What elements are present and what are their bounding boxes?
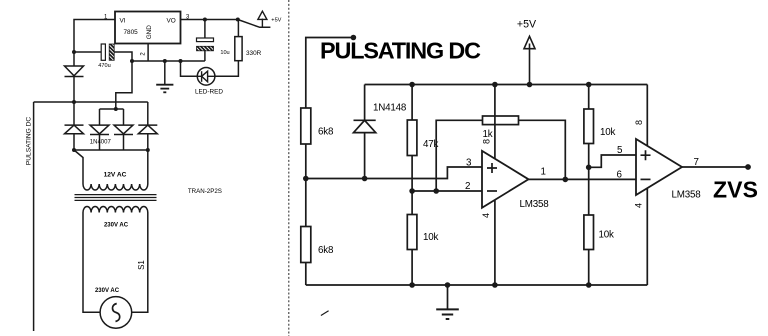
- junction at 330R branch: [236, 18, 240, 22]
- junction feedback on pin2 net: [433, 188, 439, 194]
- terminal dot ZVS output: [745, 164, 751, 170]
- junction U1 pin4 on bottom rail: [492, 282, 498, 288]
- svg-text:6k8: 6k8: [318, 127, 334, 138]
- wire: U1 pin8 to +5V rail: [494, 85, 496, 160]
- regulator 7805 body: [115, 12, 181, 44]
- wire: 470u right plate to gnd net corner: [114, 52, 132, 61]
- power +5V symbol (right): [524, 36, 535, 84]
- wire: U1 pin4 to bottom rail: [494, 200, 496, 285]
- resistor 10k (lower right) body: [584, 215, 594, 250]
- svg-text:4: 4: [633, 203, 643, 208]
- svg-text:+5V: +5V: [271, 17, 281, 23]
- wire: +5V top rail: [365, 84, 648, 86]
- op-amp U1 LM358 triangle: [482, 151, 529, 208]
- wire: pin2 net: [412, 190, 482, 192]
- wire: U2 pin4 to bottom rail: [646, 188, 648, 285]
- transformer TRAN-2P2S secondary coil 12V AC: [83, 184, 148, 190]
- wire: mid rail to 6k8 lower: [305, 179, 307, 227]
- svg-text:8: 8: [634, 120, 644, 125]
- junction 10k lower on bottom rail: [586, 282, 592, 288]
- junction pin2 tap: [409, 188, 415, 194]
- svg-text:3: 3: [466, 158, 472, 169]
- wire: 10k bottom to bottom rail: [411, 250, 413, 286]
- svg-text:330R: 330R: [246, 50, 262, 57]
- svg-text:LM358: LM358: [520, 199, 550, 210]
- svg-text:6k8: 6k8: [318, 245, 334, 256]
- LED-RED circle: [197, 68, 215, 86]
- junction +5V on rail: [527, 82, 533, 88]
- wire: 330R top: [237, 20, 239, 37]
- junction at ground branch: [163, 59, 167, 63]
- bridge diode D4 1N4007 (pointing up): [138, 102, 157, 150]
- junction on center tap: [114, 107, 118, 111]
- wire: D5 cathode down to DC rail: [73, 77, 75, 103]
- wire: 10u bottom to gnd net: [204, 51, 206, 61]
- wire: feedback right side to output: [519, 120, 566, 179]
- wire: U1 output to U2 pin6: [529, 178, 637, 180]
- capacitor 10u bottom plate (hatched): [197, 46, 214, 51]
- resistor 10k (upper right) body: [584, 109, 594, 144]
- transformer core: [75, 195, 157, 201]
- wire: left rail vertical: [33, 102, 35, 331]
- wire: 47k bottom through to 10k: [411, 156, 413, 215]
- wire: 47k top to rail: [411, 85, 413, 121]
- junction at D1 top: [72, 100, 76, 104]
- bridge diode D2 1N4007 (pointing down): [90, 109, 109, 150]
- wire: U2 output ZVS: [682, 166, 748, 168]
- stray wire stub (bottom left of right sheet): [321, 311, 329, 316]
- wire: tap step to U2 pin5: [589, 155, 636, 167]
- wire: 7805 pin2 down: [147, 44, 149, 62]
- junction at LED branch: [179, 59, 183, 63]
- svg-text:+5V: +5V: [517, 19, 537, 31]
- svg-text:GND: GND: [146, 25, 153, 40]
- diode D5 1N4007 (pointing down): [65, 66, 84, 77]
- capacitor 470u right plate (hatched): [109, 44, 114, 60]
- svg-text:470u: 470u: [98, 63, 110, 69]
- wire: U2 pin8 drop from rail: [646, 85, 648, 147]
- svg-text:VI: VI: [120, 18, 126, 25]
- junction U1 pin8 on rail: [492, 82, 498, 88]
- wire: 7805 pin1 to left vertical: [74, 20, 115, 53]
- junction at 10u branch: [203, 18, 207, 22]
- wire: 10u top to +5V net: [204, 20, 206, 39]
- op-amp U1 plus sign: [487, 163, 497, 173]
- resistor 6k8 (lower) body: [301, 227, 311, 263]
- svg-text:12V AC: 12V AC: [104, 172, 127, 179]
- capacitor 470u left plate: [101, 44, 105, 60]
- junction 10k upper on rail: [586, 82, 592, 88]
- svg-text:4: 4: [481, 213, 491, 218]
- wire: divider vertical: [588, 144, 590, 216]
- wire: 7805 pin3 to +5V: [181, 19, 238, 21]
- svg-text:10k: 10k: [423, 232, 438, 243]
- junction ground on bottom rail: [445, 282, 451, 288]
- junction bridge bottom right: [146, 148, 150, 152]
- capacitor 10u top plate: [197, 38, 214, 42]
- junction feedback tap on output: [563, 177, 569, 183]
- svg-text:10k: 10k: [600, 127, 615, 138]
- wire: bridge bottom rail: [74, 149, 148, 151]
- op-amp U2 minus sign: [641, 178, 651, 180]
- resistor 10k (below 47k) body: [407, 215, 417, 250]
- resistor 47k body: [407, 120, 417, 156]
- svg-text:TRAN-2P2S: TRAN-2P2S: [188, 188, 222, 195]
- resistor 1k body (horizontal): [483, 116, 519, 125]
- diode 1N4148 (pointing up): [354, 85, 376, 179]
- wire: bottom rail: [306, 284, 648, 286]
- wire: 330R bottom to LED: [215, 61, 239, 77]
- svg-text:VO: VO: [167, 18, 176, 25]
- bridge diode D1 1N4007 (pointing up): [65, 102, 84, 150]
- wire: mid rail (non-inverting net): [306, 167, 482, 179]
- wire: switch diagonal to +5V stub: [238, 20, 271, 28]
- wire: diagonal to secondary left terminal: [74, 150, 83, 184]
- svg-text:PULSATING DC: PULSATING DC: [26, 117, 33, 165]
- svg-text:LED-RED: LED-RED: [195, 89, 223, 96]
- svg-text:10u: 10u: [220, 50, 229, 56]
- junction 47k on top rail: [409, 82, 415, 88]
- svg-text:7805: 7805: [124, 29, 139, 36]
- junction diode anode on mid rail: [362, 176, 368, 182]
- svg-text:2: 2: [465, 181, 470, 192]
- wire: pulsating DC rail (top horizontal): [34, 101, 148, 103]
- svg-text:6: 6: [617, 169, 623, 180]
- svg-text:5: 5: [617, 145, 623, 156]
- junction mid rail left: [303, 176, 309, 182]
- junction 10k on bottom rail: [409, 282, 415, 288]
- resistor 6k8 (upper) body: [301, 108, 311, 144]
- wire: bridge center tap (D2-D3 tops): [100, 108, 124, 110]
- svg-text:1: 1: [541, 166, 546, 177]
- resistor 330R body: [235, 37, 242, 61]
- wire: gnd net down to bridge center tap: [116, 61, 132, 109]
- wire: 10k lower right to bottom rail: [588, 250, 590, 286]
- junction at 470u branch: [130, 59, 134, 63]
- AC source sine symbol: [112, 304, 119, 322]
- wire: 470u left plate to junction: [74, 51, 101, 53]
- svg-text:1N4007: 1N4007: [90, 139, 112, 145]
- ground symbol (right): [436, 285, 459, 319]
- power +5V symbol (left): [258, 11, 267, 27]
- wire: pulsating input stub: [306, 38, 354, 109]
- svg-text:1N4148: 1N4148: [373, 103, 407, 114]
- svg-text:PULSATING DC: PULSATING DC: [320, 38, 481, 64]
- op-amp U1 minus sign: [487, 190, 497, 192]
- wire: primary right leg: [132, 213, 148, 313]
- op-amp U2 plus sign: [641, 150, 651, 160]
- svg-text:8: 8: [482, 139, 492, 144]
- wire: 6k8 upper to mid rail: [305, 144, 307, 179]
- svg-text:230V AC: 230V AC: [104, 222, 129, 228]
- svg-text:LM358: LM358: [672, 190, 702, 201]
- svg-text:10k: 10k: [599, 230, 614, 241]
- op-amp U2 LM358 triangle: [636, 139, 682, 195]
- junction bridge bottom left: [72, 148, 76, 152]
- junction: net label attach dot: [351, 35, 357, 41]
- ground symbol (left): [156, 61, 173, 92]
- svg-text:S1: S1: [137, 260, 146, 270]
- wire: LED anode to gnd-net branch: [181, 61, 198, 76]
- wire: 6k8 lower to bottom rail: [305, 263, 307, 286]
- junction divider tap: [586, 165, 592, 171]
- wire: junction down to diode D5: [73, 52, 75, 66]
- svg-text:ZVS: ZVS: [713, 177, 758, 203]
- svg-text:1k: 1k: [483, 129, 493, 140]
- wire: primary left leg: [83, 213, 100, 313]
- bridge diode D3 1N4007 (pointing down): [114, 109, 133, 150]
- AC source 230V circle: [100, 297, 132, 329]
- transformer primary coil 230V AC: [83, 207, 148, 213]
- wire: 10k upper right to rail: [588, 85, 590, 110]
- wire: secondary right terminal: [147, 150, 149, 184]
- junction at 470u left: [72, 50, 76, 54]
- wire: feedback left side: [436, 120, 482, 191]
- wire: gnd net horizontal: [132, 60, 205, 62]
- LED-RED diode arrow: [197, 71, 215, 82]
- svg-text:230V AC: 230V AC: [95, 288, 120, 294]
- separator dashed line: [288, 0, 290, 336]
